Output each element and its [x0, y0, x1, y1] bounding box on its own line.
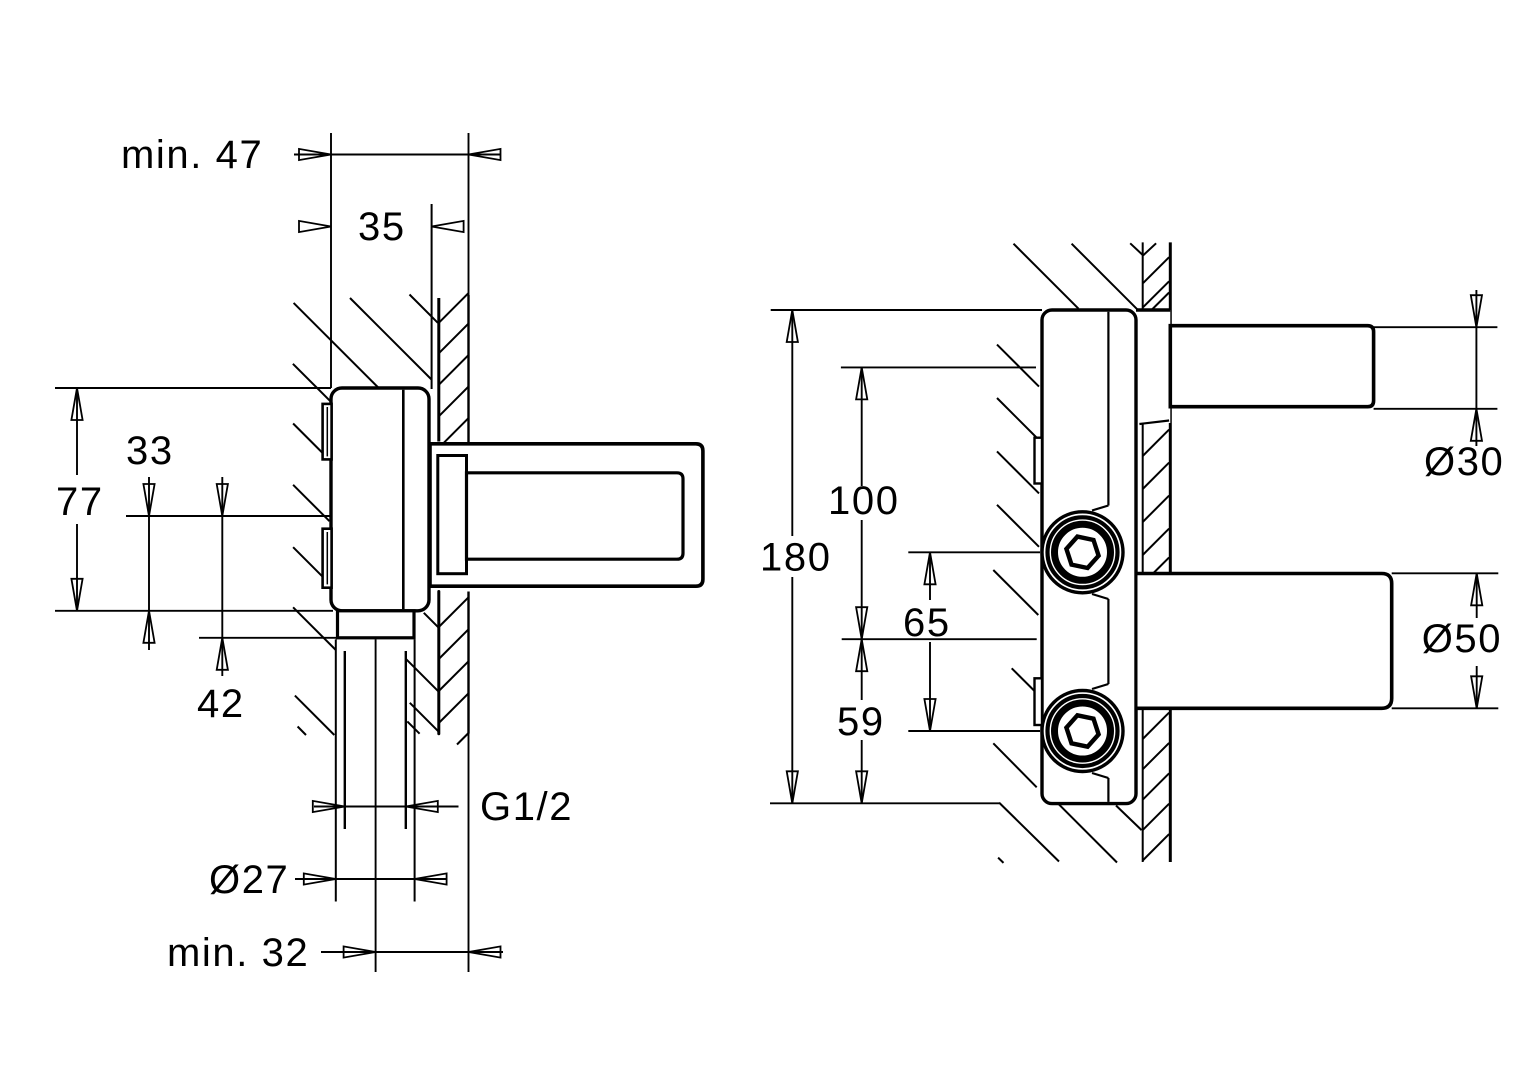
wall hatch above body right 2	[1072, 244, 1137, 309]
dimension G12 arrow left	[313, 801, 345, 812]
wall hatch above body 1	[294, 303, 379, 388]
inlet pipe outer right	[414, 639, 416, 901]
rough wall face right top	[1142, 242, 1144, 308]
wall hatch below body 2	[295, 696, 334, 735]
valve body (front section)	[1042, 310, 1136, 804]
svg-text:Ø27: Ø27	[209, 858, 289, 902]
svg-text:42: 42	[197, 682, 245, 726]
dimension 100 arrow top	[856, 367, 867, 399]
dimension 33 arrow bottom	[143, 611, 154, 643]
tile hatch bottom 3	[1143, 773, 1169, 799]
dimension 77 arrow bottom	[71, 579, 82, 611]
valve body (side section)	[331, 388, 429, 611]
tile hatch upper 3	[439, 355, 469, 385]
svg-text:Ø30: Ø30	[1424, 440, 1504, 484]
dimension 180 arrow top	[787, 310, 798, 342]
dimension G12 arrow right	[406, 801, 438, 812]
tile hatch upper 5 partial	[443, 418, 469, 444]
dimension 33 line	[148, 477, 150, 611]
tile hatch mid 3	[1143, 496, 1169, 522]
dimension min47 line	[294, 154, 501, 156]
dimension 77 arrow top	[71, 388, 82, 420]
wall hatch tick below body	[298, 727, 306, 736]
tile hatch top 2	[1143, 257, 1169, 283]
tile band right boundary upper	[467, 295, 469, 444]
tile face right upper	[1169, 242, 1172, 573]
dimension min32 line	[321, 951, 503, 953]
dimension 65 line upper	[929, 552, 931, 600]
wall hatch beside body 3	[293, 547, 323, 577]
lower fixing screw	[1042, 691, 1123, 772]
svg-text:59: 59	[837, 700, 885, 744]
dimension 180 line upper	[791, 310, 793, 536]
dimension d30 arrow bottom	[1471, 409, 1482, 441]
mounting lug upper	[323, 404, 332, 460]
extension line d30 top	[1374, 326, 1498, 328]
tile hatch mid 5 partial	[1153, 557, 1169, 573]
svg-text:35: 35	[358, 205, 406, 249]
extension line body top (right view)	[771, 309, 1042, 311]
dimension 42 arrow bottom	[217, 638, 228, 670]
dimension 180 line lower	[791, 577, 793, 803]
tile face line lower	[437, 592, 440, 734]
inlet pipe thread right	[405, 651, 407, 829]
mounting lug lower inner line	[326, 532, 328, 584]
wall hatch tick below body right	[998, 858, 1003, 863]
wall hatch below body right 3	[1116, 806, 1142, 831]
inlet pipe thread left	[344, 651, 346, 829]
dimension d30 line	[1475, 327, 1477, 409]
rough wall face line	[431, 204, 433, 389]
body inner step 1	[1092, 506, 1108, 511]
dimension 65 line lower	[929, 642, 931, 731]
rough wall face right bottom	[1142, 708, 1144, 862]
tile band right boundary lower	[467, 592, 469, 734]
svg-text:min. 32: min. 32	[167, 931, 309, 975]
wall hatch right strip 2	[406, 659, 439, 692]
svg-text:77: 77	[56, 480, 104, 524]
dimension d50 arrow bottom	[1471, 676, 1482, 708]
wall hatch beside body right 4	[997, 505, 1039, 547]
extension line d50 top	[1392, 572, 1499, 574]
dimension d30 top tail	[1475, 290, 1477, 327]
dimension d50 arrow top	[1471, 573, 1482, 605]
extension line d50 bottom	[1392, 707, 1499, 709]
tile hatch lower 2	[439, 629, 469, 659]
escutcheon plate top edge	[1136, 308, 1170, 311]
extension line d30 bottom	[1374, 408, 1498, 410]
dimension 35 arrow left	[299, 221, 331, 232]
body inner step 4	[1092, 773, 1108, 778]
extension line body top	[55, 387, 331, 389]
tile hatch mid 4	[1143, 529, 1169, 555]
wall hatch below body 1	[293, 607, 336, 650]
body flange inner line	[402, 390, 405, 609]
upper screw hex socket	[1066, 537, 1098, 568]
spout wall sleeve	[438, 456, 467, 574]
body inner line upper	[1107, 312, 1109, 506]
dimension G12 line	[314, 806, 459, 808]
tile hatch bottom 1	[1143, 713, 1169, 739]
extension line body bottom	[55, 610, 333, 612]
wall hatch beside body right 7	[993, 743, 1036, 787]
dimension 35 arrow right	[432, 221, 464, 232]
dimension d27 arrow left	[304, 873, 336, 884]
dimension 77 line upper	[76, 388, 78, 475]
dimension d27 arrow right	[415, 873, 447, 884]
inlet nut	[338, 611, 415, 638]
tile hatch mid 1	[1143, 430, 1169, 456]
body inner line lower	[1107, 778, 1109, 802]
tile hatch upper 2	[439, 324, 469, 354]
dimension 100 line lower	[861, 520, 863, 639]
tile hatch top 3	[1143, 281, 1169, 307]
dimension 42 arrow top	[217, 484, 228, 516]
mounting lug upper inner line	[326, 407, 328, 456]
extension line spout axis	[126, 515, 331, 517]
lower screw hex socket	[1066, 715, 1098, 746]
wall hatch below body right 1	[999, 803, 1059, 862]
tile hatch lower 3	[439, 661, 469, 691]
inlet pipe outer left	[335, 639, 337, 901]
tile hatch upper 1	[439, 293, 469, 323]
spout inner bore	[467, 473, 684, 559]
wall hatch chevron top	[1130, 243, 1143, 255]
wall hatch right strip 4	[407, 721, 419, 733]
dimension 42 line	[221, 477, 223, 638]
tile hatch bottom 5	[1143, 834, 1169, 860]
dimension 59 arrow top	[856, 639, 867, 671]
svg-text:33: 33	[126, 429, 174, 473]
tile hatch bottom 2	[1143, 743, 1169, 769]
wall hatch beside body right 5	[993, 570, 1038, 615]
wall hatch beside body right 1	[997, 345, 1039, 387]
svg-text:min. 47: min. 47	[121, 133, 263, 177]
escutcheon plate bottom edge	[1139, 421, 1169, 425]
dimension 33 arrow top	[143, 484, 154, 516]
wall hatch right strip 1	[424, 613, 439, 628]
tile hatch upper 4	[439, 387, 469, 417]
dimension d30 bottom tail	[1475, 409, 1477, 446]
wall hatch right strip 3	[410, 703, 439, 732]
dimension d50 line lower	[1476, 666, 1478, 708]
dimension 42 bottom tail	[221, 638, 223, 676]
wall hatch above body 4	[293, 364, 331, 402]
dimension d27 line	[295, 878, 447, 880]
rough wall face right middle	[1142, 424, 1144, 574]
tile face line upper	[437, 298, 440, 442]
dimension 59 line lower	[861, 740, 863, 803]
wall hatch beside body right 6	[1012, 668, 1035, 691]
tile hatch lower 4	[439, 693, 469, 723]
dimension 59 line upper	[861, 639, 863, 700]
svg-text:100: 100	[828, 479, 900, 523]
dimension min47 arrow left	[299, 149, 331, 160]
wall hatch beside body 1	[293, 424, 323, 454]
mounting lug lower	[323, 529, 332, 588]
mounting tab lower (right view)	[1035, 678, 1043, 725]
extension line d30 axis	[841, 366, 1036, 368]
dimension min32 arrow right	[469, 946, 501, 957]
wall hatch beside body 2	[293, 485, 329, 521]
mounting tab upper (right view)	[1035, 438, 1043, 484]
wall hatch beside body right 2	[997, 398, 1039, 440]
extension line upper screw	[908, 551, 1040, 553]
dimension min32 arrow left	[344, 946, 376, 957]
tile hatch top 1	[1143, 243, 1156, 255]
escutcheon plate fill	[1136, 310, 1170, 423]
dimension min47 arrow right	[469, 149, 501, 160]
extension line rear face (left view)	[330, 133, 332, 388]
dimension 33 bottom tail	[148, 611, 150, 650]
wall hatch above body right 1	[1014, 244, 1079, 309]
tile hatch lower 1	[439, 597, 469, 627]
extension line lower screw	[908, 730, 1040, 732]
dimension 180 arrow bottom	[787, 771, 798, 803]
extension line nut bottom	[199, 637, 338, 639]
spout outer profile	[430, 444, 703, 586]
wall hatch above body 2	[350, 298, 432, 380]
extension line d50 axis	[842, 638, 1037, 640]
wall hatch below body right 2	[1057, 803, 1117, 863]
tile hatch mid 2	[1143, 463, 1169, 489]
extension line finished wall bottom	[468, 734, 470, 972]
svg-text:Ø50: Ø50	[1422, 617, 1502, 661]
extension line body bottom (right view)	[770, 802, 999, 804]
tile hatch bottom 4	[1143, 804, 1169, 830]
svg-text:G1/2: G1/2	[480, 785, 573, 829]
pipe centerline	[375, 639, 377, 972]
extension line finished wall top	[468, 133, 470, 295]
dimension 59 arrow bottom	[856, 771, 867, 803]
dimension 100 arrow bottom	[856, 607, 867, 639]
wall hatch beside body right 3	[997, 451, 1039, 493]
body inner step 3	[1092, 684, 1108, 689]
body inner step 2	[1092, 594, 1108, 599]
tile hatch lower tick	[457, 733, 469, 745]
dimension d50 line upper	[1476, 573, 1478, 618]
dimension 65 arrow top	[924, 552, 935, 584]
dimension 65 arrow bottom	[924, 699, 935, 731]
tile face right lower	[1169, 708, 1172, 862]
dimension 77 line lower	[76, 524, 78, 611]
wall hatch above body 3	[410, 295, 438, 323]
spout escutcheon pipe d50	[1138, 574, 1392, 709]
handle sleeve pipe d30	[1170, 326, 1373, 407]
svg-text:180: 180	[760, 536, 832, 580]
body inner line middle	[1107, 599, 1109, 684]
dimension 100 line upper	[861, 367, 863, 486]
tile hatch top 4 partial	[1152, 293, 1170, 311]
upper fixing screw	[1042, 512, 1123, 593]
svg-text:65: 65	[903, 601, 951, 645]
dimension d30 arrow top	[1471, 295, 1482, 327]
